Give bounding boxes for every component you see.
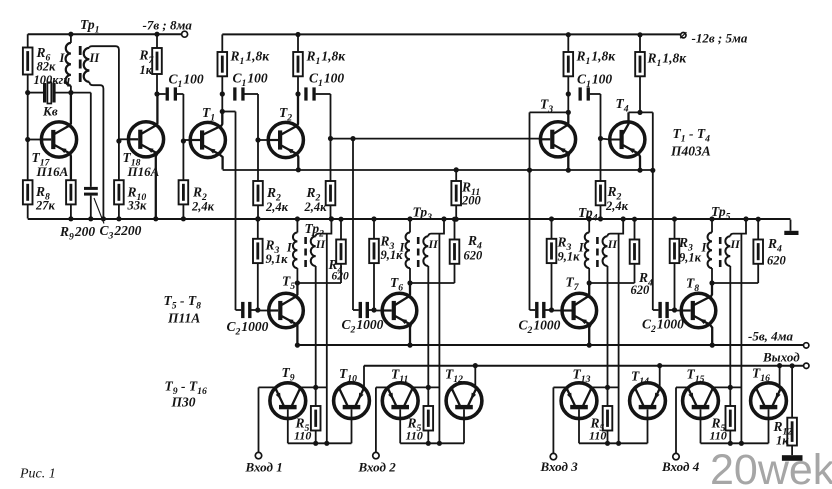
svg-text:27к: 27к — [35, 199, 56, 213]
svg-text:9,1к: 9,1к — [558, 250, 581, 264]
svg-text:Вход 2: Вход 2 — [358, 460, 397, 475]
svg-text:II: II — [428, 237, 440, 251]
svg-text:110: 110 — [294, 429, 311, 443]
svg-text:2,4к: 2,4к — [191, 200, 215, 214]
svg-text:П16А: П16А — [127, 164, 160, 179]
svg-text:Рис. 1: Рис. 1 — [19, 467, 56, 482]
svg-text:2,4к: 2,4к — [605, 199, 629, 213]
svg-text:П30: П30 — [171, 395, 196, 410]
svg-text:110: 110 — [406, 429, 423, 443]
svg-text:Вход 4: Вход 4 — [661, 459, 700, 474]
svg-text:82к: 82к — [37, 60, 57, 74]
svg-text:-12в ; 5ма: -12в ; 5ма — [692, 31, 748, 46]
svg-text:110: 110 — [589, 429, 606, 443]
svg-text:2,4к: 2,4к — [265, 200, 289, 214]
svg-text:-7в ; 8ма: -7в ; 8ма — [143, 18, 193, 33]
svg-text:9,1к: 9,1к — [266, 252, 289, 266]
svg-text:620: 620 — [464, 249, 484, 263]
svg-text:2,4к: 2,4к — [304, 200, 328, 214]
svg-text:Вход 1: Вход 1 — [245, 460, 283, 475]
svg-text:100кгц: 100кгц — [34, 73, 71, 87]
svg-text:33к: 33к — [127, 199, 148, 213]
svg-text:П11А: П11А — [167, 311, 200, 326]
svg-text:620: 620 — [767, 254, 787, 268]
svg-text:620: 620 — [631, 283, 651, 297]
svg-text:20wek: 20wek — [710, 446, 832, 489]
svg-text:Кв: Кв — [42, 104, 58, 119]
svg-text:II: II — [607, 237, 619, 251]
svg-text:9,1к: 9,1к — [679, 251, 702, 265]
svg-text:II: II — [315, 237, 327, 251]
svg-text:Вход 3: Вход 3 — [540, 459, 579, 474]
svg-text:П403А: П403А — [670, 144, 711, 159]
svg-text:200: 200 — [461, 194, 482, 208]
svg-text:110: 110 — [710, 429, 727, 443]
svg-text:II: II — [89, 51, 101, 65]
svg-text:1к: 1к — [140, 63, 153, 77]
svg-text:Выход: Выход — [762, 350, 800, 365]
svg-text:-5в, 4ма: -5в, 4ма — [748, 329, 794, 344]
svg-text:620: 620 — [332, 271, 350, 283]
svg-text:П16А: П16А — [36, 164, 69, 179]
svg-text:II: II — [730, 237, 742, 251]
